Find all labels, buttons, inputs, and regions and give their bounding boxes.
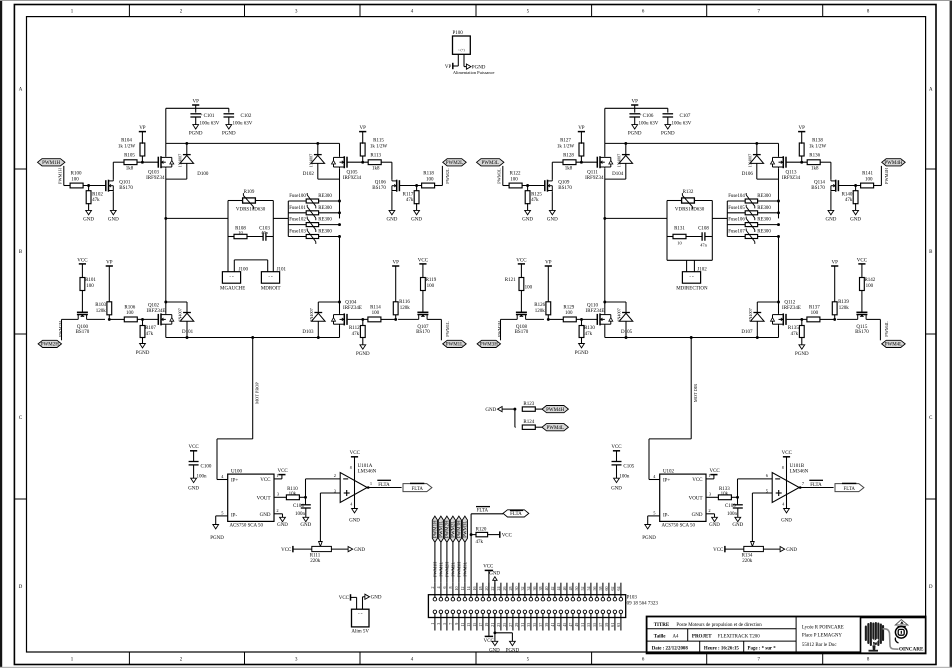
wire xyxy=(452,583,454,598)
svg-text:Q104: Q104 xyxy=(345,300,357,305)
svg-text:Q101: Q101 xyxy=(119,180,131,185)
wire xyxy=(548,614,550,631)
svg-text:19: 19 xyxy=(484,623,489,627)
wire xyxy=(548,318,563,320)
wire mid rail xyxy=(166,217,228,219)
svg-text:RE300: RE300 xyxy=(757,206,771,211)
connector flag PWM2H (vertical) xyxy=(444,516,449,542)
svg-text:PWM3H: PWM3H xyxy=(497,320,502,337)
svg-text:2: 2 xyxy=(708,508,710,513)
P103 pin 18 (top) xyxy=(481,597,485,601)
svg-text:Fuse102: Fuse102 xyxy=(289,218,306,223)
svg-text:BS170: BS170 xyxy=(811,186,825,191)
wire + input from trimmer xyxy=(320,492,340,494)
power flag VCC (Alim) xyxy=(350,594,352,600)
wire xyxy=(576,161,597,163)
svg-text:3: 3 xyxy=(436,623,441,625)
svg-text:R123: R123 xyxy=(523,402,534,407)
wire snubber box bottom xyxy=(666,237,668,261)
P103 pin 12 (top) xyxy=(463,597,467,601)
diode D106 1N4007 xyxy=(756,143,758,154)
svg-text:IP+: IP+ xyxy=(663,478,670,483)
wire xyxy=(400,185,422,187)
ground GND (sensor) xyxy=(712,517,718,521)
wire xyxy=(464,614,466,631)
wire left bus upper right xyxy=(604,143,606,156)
svg-text:VCC: VCC xyxy=(260,478,271,483)
node gate Q103 xyxy=(141,161,144,164)
svg-text:PWM1H: PWM1H xyxy=(433,562,438,577)
wire xyxy=(452,614,454,631)
svg-text:PGND: PGND xyxy=(222,132,236,137)
svg-text:Q107: Q107 xyxy=(417,325,429,330)
resistor R105 1k8 xyxy=(124,160,137,165)
ground GND (sensor) xyxy=(280,517,286,521)
wire xyxy=(576,318,597,320)
svg-text:~ (+): ~ (+) xyxy=(458,48,465,52)
svg-text:FLTA: FLTA xyxy=(844,487,856,492)
wire IP+ pin 4 xyxy=(217,479,228,481)
ground PGND (IP-) xyxy=(645,525,651,529)
svg-text:PWM1H: PWM1H xyxy=(57,167,62,184)
resistor R124 xyxy=(514,426,517,428)
svg-text:37: 37 xyxy=(538,623,543,627)
svg-text:VP: VP xyxy=(139,126,146,131)
power flag VCC xyxy=(79,263,86,265)
svg-text:RE300: RE300 xyxy=(757,218,771,223)
wire xyxy=(476,583,478,598)
svg-text:34: 34 xyxy=(526,587,531,591)
svg-text:PWM3H: PWM3H xyxy=(457,562,462,577)
wire xyxy=(440,614,442,631)
power flag VCC (bypass) xyxy=(190,450,197,452)
svg-text:Q100: Q100 xyxy=(77,325,89,330)
fuse Fuse104 RE300 xyxy=(727,200,745,202)
P103 pin 15 (bottom) xyxy=(475,610,479,614)
svg-text:VCC: VCC xyxy=(77,258,88,263)
resistor R112 47k xyxy=(362,319,364,325)
diode D105 1N4007 xyxy=(625,302,627,313)
svg-text:VCC: VCC xyxy=(277,469,288,474)
wire xyxy=(608,614,610,631)
wire xyxy=(87,318,105,320)
power flag VCC (P103 top) xyxy=(488,570,490,597)
wire xyxy=(446,614,448,631)
svg-text:A: A xyxy=(929,88,933,93)
svg-text:R121: R121 xyxy=(505,278,516,283)
P103 pin 54 (top) xyxy=(589,597,593,601)
wire xyxy=(554,614,556,631)
connector flag PWM4L xyxy=(882,340,906,347)
ground GND xyxy=(853,210,859,214)
connector flag PWM2L xyxy=(443,159,467,166)
svg-text:9: 9 xyxy=(454,623,459,625)
wire + node xyxy=(731,496,737,498)
svg-text:12: 12 xyxy=(460,587,465,591)
svg-text:Fuse105: Fuse105 xyxy=(728,206,745,211)
capacitor C109 100n xyxy=(737,497,739,505)
svg-text:10k: 10k xyxy=(721,492,729,497)
svg-text:PWM2L: PWM2L xyxy=(445,168,450,184)
svg-text:100n: 100n xyxy=(197,474,208,479)
svg-text:GND: GND xyxy=(277,523,288,528)
svg-text:LM346N: LM346N xyxy=(358,469,377,474)
svg-text:2: 2 xyxy=(430,587,435,589)
capacitor C108 47n (snubber) xyxy=(686,236,702,238)
ground GND xyxy=(525,210,531,214)
wire xyxy=(518,583,520,598)
power flag VCC xyxy=(419,263,426,265)
node gate Q111 xyxy=(580,161,583,164)
svg-text:Fuse100: Fuse100 xyxy=(289,194,306,199)
capacitor C100 100n xyxy=(193,451,195,462)
capacitor C107 100u 63V xyxy=(667,108,669,112)
ground GND (P103 top) xyxy=(494,580,496,597)
wire xyxy=(602,583,604,598)
fuse Fuse105 RE300 xyxy=(727,212,745,214)
wire top VP rail left xyxy=(166,142,340,144)
ground GND (PWM4 termination) xyxy=(498,407,503,412)
ground GND xyxy=(86,210,92,214)
svg-text:1k 1/2W: 1k 1/2W xyxy=(557,144,575,149)
svg-text:~ =: ~ = xyxy=(229,275,234,279)
resistor R141 100 xyxy=(861,183,874,188)
wire xyxy=(446,542,448,582)
svg-text:36: 36 xyxy=(532,587,537,591)
svg-text:Place P LEMAGNY: Place P LEMAGNY xyxy=(802,634,842,639)
P103 pin 26 (top) xyxy=(505,597,509,601)
svg-text:IRF9Z34: IRF9Z34 xyxy=(782,176,801,181)
svg-text:~ =: ~ = xyxy=(268,275,273,279)
P103 pin 13 (bottom) xyxy=(469,610,473,614)
svg-text:MDIRECTION: MDIRECTION xyxy=(676,287,708,292)
svg-text:R129: R129 xyxy=(563,306,574,311)
node gate Q106 xyxy=(415,184,418,187)
node gate Q109 xyxy=(526,184,529,187)
svg-text:11: 11 xyxy=(460,623,465,627)
connector flag FLTA (output) xyxy=(403,484,432,492)
wire VCC pin 1 xyxy=(706,478,714,480)
transistor Q104 IRFZ34E (N-MOSFET low side right) xyxy=(346,314,348,325)
svg-text:C109: C109 xyxy=(725,504,736,509)
svg-text:8: 8 xyxy=(782,465,784,470)
resistor R117 47k xyxy=(416,186,418,192)
svg-text:C: C xyxy=(19,416,22,421)
svg-text:PGND: PGND xyxy=(575,351,589,356)
wire xyxy=(458,542,460,582)
power flag VP xyxy=(545,265,552,267)
wire right bus upper left xyxy=(339,143,341,156)
svg-text:Q102: Q102 xyxy=(148,303,160,308)
svg-text:VOUT: VOUT xyxy=(689,496,703,501)
svg-text:40: 40 xyxy=(544,587,549,591)
svg-text:Q114: Q114 xyxy=(814,180,825,185)
svg-text:47k: 47k xyxy=(352,332,360,337)
svg-text:RE300: RE300 xyxy=(318,206,332,211)
svg-text:55012 Bar le Duc: 55012 Bar le Duc xyxy=(802,643,837,648)
transistor Q105 IRF9Z34 (P-MOSFET high side right) xyxy=(346,157,348,168)
svg-text:VCC: VCC xyxy=(782,451,793,456)
P103 pin 56 (top) xyxy=(595,597,599,601)
svg-text:Q108: Q108 xyxy=(516,325,528,330)
svg-text:J100: J100 xyxy=(239,267,249,272)
wire xyxy=(137,318,158,320)
row ticks xyxy=(14,168,26,170)
wire xyxy=(584,614,586,631)
ground GND (bypass) xyxy=(614,478,620,482)
diode D101 1N4007 xyxy=(186,302,188,313)
connector flag PWM3L xyxy=(477,159,504,166)
ground PGND xyxy=(140,344,146,348)
power flag VP (P100) xyxy=(452,63,454,69)
wire fuse bus left xyxy=(726,201,728,237)
connector flag PWM1H xyxy=(38,159,65,166)
svg-text:100u 63V: 100u 63V xyxy=(200,121,220,126)
svg-text:7: 7 xyxy=(448,623,453,625)
svg-text:47k: 47k xyxy=(531,198,539,203)
P103 pin 50 (top) xyxy=(577,597,581,601)
svg-text:PWM1H: PWM1H xyxy=(42,161,60,166)
svg-text:U102: U102 xyxy=(663,469,675,474)
wire xyxy=(524,614,526,631)
wire xyxy=(441,166,443,186)
svg-text:55: 55 xyxy=(592,623,597,627)
wire xyxy=(488,614,490,631)
wire bottom output rail xyxy=(166,337,340,339)
P103 pin 36 (top) xyxy=(535,597,539,601)
wire xyxy=(452,542,454,582)
wire op-amp GND pin 4 xyxy=(354,489,356,509)
svg-text:09 18 564 7323: 09 18 564 7323 xyxy=(627,602,659,607)
svg-text:C105: C105 xyxy=(623,464,634,469)
svg-text:IP-: IP- xyxy=(231,514,237,519)
connector flag PWM1L (vertical) xyxy=(438,516,443,542)
svg-text:PWM4L: PWM4L xyxy=(884,321,889,337)
svg-text:BS170: BS170 xyxy=(855,330,869,335)
resistor R101 100 xyxy=(80,278,85,291)
svg-text:1N4007: 1N4007 xyxy=(748,308,753,322)
svg-text:62: 62 xyxy=(610,587,615,591)
svg-text:Date : 22/12/2008: Date : 22/12/2008 xyxy=(652,647,689,652)
svg-text:26: 26 xyxy=(502,587,507,591)
svg-text:R137: R137 xyxy=(809,306,820,311)
P103 pin 27 (bottom) xyxy=(511,610,515,614)
svg-text:GND: GND xyxy=(692,513,703,518)
wire xyxy=(536,614,538,631)
wire left bus upper left xyxy=(165,143,167,156)
P103 pin 9 (bottom) xyxy=(457,610,461,614)
title block xyxy=(647,617,926,654)
wire VOUT pin 3 xyxy=(706,496,719,498)
svg-text:GND: GND xyxy=(522,217,533,222)
resistor R142 100 xyxy=(860,278,865,291)
svg-text:IRFZ34E: IRFZ34E xyxy=(343,306,362,311)
diode D104 1N4007 xyxy=(625,143,627,154)
svg-text:4: 4 xyxy=(350,502,352,507)
ground GND (P103 bottom) xyxy=(494,614,496,642)
svg-text:32: 32 xyxy=(520,587,525,591)
wire drain up xyxy=(112,162,114,180)
connector J102 MDIRECTION xyxy=(682,272,700,284)
svg-text:16: 16 xyxy=(472,587,477,591)
fuse Fuse100 RE300 xyxy=(288,200,306,202)
wire xyxy=(494,614,496,631)
wire source to PGND rail xyxy=(778,325,780,337)
resistor R107 47k xyxy=(142,319,144,325)
capacitor C105 100n xyxy=(616,451,618,462)
svg-text:VCC: VCC xyxy=(709,469,720,474)
svg-text:TITRE: TITRE xyxy=(654,623,670,628)
wire xyxy=(464,583,466,598)
resistor R116 120k xyxy=(394,318,397,321)
ground GND (op-amp) xyxy=(784,509,790,513)
svg-text:21: 21 xyxy=(490,623,495,627)
svg-text:~ =: ~ = xyxy=(689,275,694,279)
ground GND xyxy=(414,210,420,214)
wire xyxy=(554,583,556,598)
P103 pin 5 (bottom) xyxy=(445,610,449,614)
svg-text:47k: 47k xyxy=(146,332,154,337)
svg-text:R105: R105 xyxy=(124,153,135,158)
wire xyxy=(602,614,604,631)
svg-text:OINCARE: OINCARE xyxy=(899,646,924,652)
ground PGND (C106) xyxy=(632,125,638,129)
power flag VCC xyxy=(858,263,865,265)
svg-text:Taille: Taille xyxy=(654,635,667,640)
transistor Q111 IRF9Z34 (P-MOSFET high side left) xyxy=(596,157,598,168)
fuse Fuse102 RE300 xyxy=(288,224,306,226)
svg-text:VCC: VCC xyxy=(339,596,350,601)
ground GND xyxy=(110,210,116,214)
svg-text:1k8: 1k8 xyxy=(565,167,573,172)
svg-text:RE300: RE300 xyxy=(757,194,771,199)
wire IP- pin 5 xyxy=(648,515,660,517)
capacitor C102 100u 63V xyxy=(228,108,230,112)
resistor R131 10 (snubber) xyxy=(667,236,673,238)
svg-text:IRF9Z34: IRF9Z34 xyxy=(343,176,362,181)
svg-text:4: 4 xyxy=(782,502,784,507)
wire xyxy=(440,319,442,340)
svg-text:49: 49 xyxy=(574,623,579,627)
svg-text:IRFZ34E: IRFZ34E xyxy=(586,309,605,314)
scan edge artifacts xyxy=(0,0,2,668)
ground PGND (C107) xyxy=(665,125,671,129)
transistor Q106 BS170 xyxy=(398,180,400,191)
svg-text:R103: R103 xyxy=(95,303,106,308)
svg-text:C104: C104 xyxy=(293,504,304,509)
resistor R140 47k xyxy=(855,186,857,192)
svg-text:FLEXITRACK T200: FLEXITRACK T200 xyxy=(718,635,760,640)
connector flag PWM4L (termination) xyxy=(535,426,542,428)
wire xyxy=(470,595,472,598)
wire P100 pin1 xyxy=(457,54,459,66)
svg-text:20: 20 xyxy=(484,587,489,591)
wire to J101 xyxy=(272,237,274,272)
trimmer R111 220k xyxy=(319,542,323,547)
wire jog to diode xyxy=(166,301,187,303)
wire xyxy=(482,614,484,631)
transistor Q113 IRF9Z34 (P-MOSFET high side right) xyxy=(785,157,787,168)
svg-text:PGND: PGND xyxy=(189,132,203,137)
svg-text:GND: GND xyxy=(83,217,94,222)
svg-text:R101: R101 xyxy=(85,278,96,283)
svg-text:47n: 47n xyxy=(261,230,268,235)
power flag VCC (op-amp) xyxy=(783,456,790,458)
svg-text:1N4007: 1N4007 xyxy=(616,154,621,168)
P103 pin 1 (bottom) xyxy=(433,610,437,614)
varistor R109 VDRS10D630 xyxy=(228,200,243,202)
svg-text:17: 17 xyxy=(478,623,483,627)
wire xyxy=(584,583,586,598)
svg-text:51: 51 xyxy=(580,623,585,627)
connector flag PWM1H (vertical) xyxy=(432,516,437,542)
connector flag PWM2L (vertical) xyxy=(450,516,455,542)
P103 pin 11 (bottom) xyxy=(463,610,467,614)
svg-text:PWM1L: PWM1L xyxy=(445,321,450,337)
P103 pin 20 (top) xyxy=(487,597,491,601)
wire xyxy=(381,318,396,320)
transistor Q110 IRFZ34E (N-MOSFET low side left) xyxy=(596,314,598,325)
svg-text:GND: GND xyxy=(349,518,360,523)
wire mid rail xyxy=(605,217,667,219)
transistor Q101 BS170 xyxy=(105,180,107,191)
resistor R114 100 xyxy=(368,317,381,322)
svg-text:100: 100 xyxy=(866,284,874,289)
svg-text:J102: J102 xyxy=(697,267,707,272)
svg-text:VCC: VCC xyxy=(483,564,493,569)
svg-text:46: 46 xyxy=(562,587,567,591)
svg-text:GND: GND xyxy=(489,571,500,576)
wire xyxy=(590,583,592,598)
power flag VCC (FLTA pull-up) xyxy=(488,534,500,536)
wire xyxy=(839,185,861,187)
wire op-amp output xyxy=(367,487,401,489)
svg-text:1k8: 1k8 xyxy=(372,167,380,172)
svg-text:PWM4L: PWM4L xyxy=(546,426,564,431)
svg-text:1N4007: 1N4007 xyxy=(747,154,752,168)
svg-text:A: A xyxy=(19,88,23,93)
P103 pin 29 (bottom) xyxy=(517,610,521,614)
svg-text:Q103: Q103 xyxy=(148,170,160,175)
wire source to PGND rail xyxy=(339,325,341,337)
svg-text:13: 13 xyxy=(466,623,471,627)
svg-text:ACS750 SCA 50: ACS750 SCA 50 xyxy=(662,523,696,528)
fuse Fuse106 RE300 xyxy=(727,224,745,226)
svg-text:24: 24 xyxy=(496,587,501,591)
svg-text:R119: R119 xyxy=(426,278,437,283)
svg-text:PWM2H: PWM2H xyxy=(58,320,63,337)
svg-text:R117: R117 xyxy=(403,193,414,198)
svg-text:VP: VP xyxy=(631,100,638,105)
ground GND xyxy=(828,210,834,214)
svg-text:MOT DIR: MOT DIR xyxy=(693,384,698,402)
svg-text:PWM2H: PWM2H xyxy=(445,562,450,577)
svg-text:23: 23 xyxy=(496,623,501,627)
resistor R106 100 xyxy=(124,317,137,322)
wire Alim VCC xyxy=(356,597,358,609)
resistor R122 100 xyxy=(509,183,522,188)
wire snubber box sides xyxy=(227,201,229,237)
svg-text:VP: VP xyxy=(831,260,838,265)
P103 pin 41 (bottom) xyxy=(553,610,557,614)
svg-text:IP-: IP- xyxy=(663,514,669,519)
svg-text:R115: R115 xyxy=(373,139,384,144)
svg-text:1N4007: 1N4007 xyxy=(617,308,622,322)
P103 pin 46 (top) xyxy=(565,597,569,601)
svg-text:PWM2H: PWM2H xyxy=(41,343,59,348)
svg-text:31: 31 xyxy=(520,623,525,627)
resistor R110 10k xyxy=(286,495,299,500)
